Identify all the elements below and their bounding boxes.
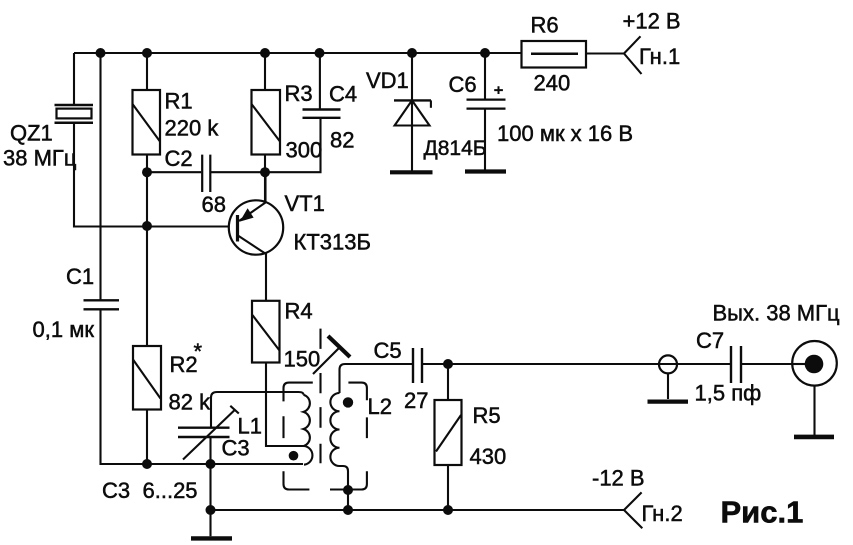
svg-text:C3: C3: [222, 436, 250, 461]
svg-text:C4: C4: [329, 82, 357, 107]
svg-text:C7: C7: [696, 328, 724, 353]
svg-text:240: 240: [534, 71, 571, 96]
svg-text:1,5 пф: 1,5 пф: [695, 381, 762, 406]
svg-text:150: 150: [284, 347, 321, 372]
svg-text:C2: C2: [165, 146, 193, 171]
svg-text:6...25: 6...25: [143, 478, 198, 503]
svg-text:Гн.2: Гн.2: [642, 501, 683, 526]
svg-text:38 МГц: 38 МГц: [3, 146, 77, 171]
svg-text:430: 430: [470, 444, 507, 469]
svg-text:82: 82: [330, 128, 354, 153]
svg-text:68: 68: [202, 192, 226, 217]
svg-text:Рис.1: Рис.1: [721, 495, 804, 530]
svg-text:L2: L2: [368, 394, 392, 419]
svg-text:R3: R3: [285, 81, 313, 106]
svg-text:220 k: 220 k: [165, 116, 220, 141]
svg-text:82 k: 82 k: [169, 390, 212, 415]
svg-text:100 мк x 16 В: 100 мк x 16 В: [497, 121, 633, 146]
svg-text:VT1: VT1: [285, 191, 325, 216]
svg-text:27: 27: [404, 388, 428, 413]
svg-text:QZ1: QZ1: [10, 121, 53, 146]
svg-text:R5: R5: [473, 403, 501, 428]
svg-text:Д814Б: Д814Б: [424, 137, 487, 160]
svg-text:R6: R6: [531, 13, 559, 38]
svg-text:C6: C6: [449, 72, 477, 97]
svg-text:-12 В: -12 В: [592, 466, 645, 491]
svg-text:300: 300: [286, 138, 323, 163]
svg-text:C5: C5: [374, 338, 402, 363]
svg-text:+12 В: +12 В: [623, 9, 681, 34]
svg-text:R1: R1: [165, 89, 193, 114]
svg-text:КТ313Б: КТ313Б: [294, 230, 371, 255]
svg-text:R4: R4: [285, 299, 313, 324]
svg-text:C3: C3: [102, 478, 130, 503]
svg-text:VD1: VD1: [366, 68, 409, 93]
svg-text:C1: C1: [66, 264, 94, 289]
svg-text:0,1 мк: 0,1 мк: [33, 317, 95, 342]
svg-text:Вых. 38 МГц: Вых. 38 МГц: [713, 301, 841, 326]
svg-text:*: *: [194, 339, 203, 364]
svg-text:Гн.1: Гн.1: [639, 44, 680, 69]
